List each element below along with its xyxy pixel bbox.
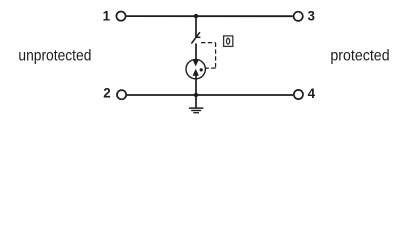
- dashed link vertical: [215, 43, 217, 69]
- wire vertical upper segment: [195, 16, 197, 37]
- terminal circle 4: [294, 90, 303, 99]
- ground bar 2: [191, 110, 201, 112]
- trigger electrode dot: [200, 68, 203, 71]
- terminal circle 1: [116, 12, 125, 21]
- terminal circle 3: [294, 12, 303, 21]
- svg-text:2: 2: [103, 85, 110, 100]
- wire bottom (2 to 4): [127, 94, 293, 96]
- svg-text:unprotected: unprotected: [18, 47, 91, 64]
- spark gap arrester circle: [186, 59, 205, 78]
- ground bar 3: [193, 112, 199, 114]
- ground stub wire: [195, 95, 197, 108]
- wire vertical lower segment: [195, 75, 197, 95]
- svg-text:4: 4: [308, 86, 316, 101]
- dashed link top horizontal: [201, 42, 216, 44]
- junction bottom node: [194, 93, 198, 97]
- disconnect contact tick: [196, 36, 201, 38]
- svg-text:3: 3: [307, 9, 314, 24]
- disconnect blade: [191, 32, 200, 43]
- ground bar 1: [189, 107, 203, 109]
- svg-text:protected: protected: [330, 47, 389, 64]
- dashed link bottom horizontal: [206, 67, 216, 69]
- svg-text:1: 1: [103, 8, 111, 23]
- spark gap lower electrode arrow: [193, 69, 199, 76]
- junction top node: [194, 14, 198, 18]
- wire top (1 to 3): [126, 15, 292, 17]
- terminal circle 2: [117, 90, 126, 99]
- status indicator symbol: [227, 38, 230, 44]
- status indicator box: [224, 36, 233, 47]
- spark gap upper electrode arrow: [193, 60, 199, 67]
- wire vertical middle segment: [195, 43, 197, 60]
